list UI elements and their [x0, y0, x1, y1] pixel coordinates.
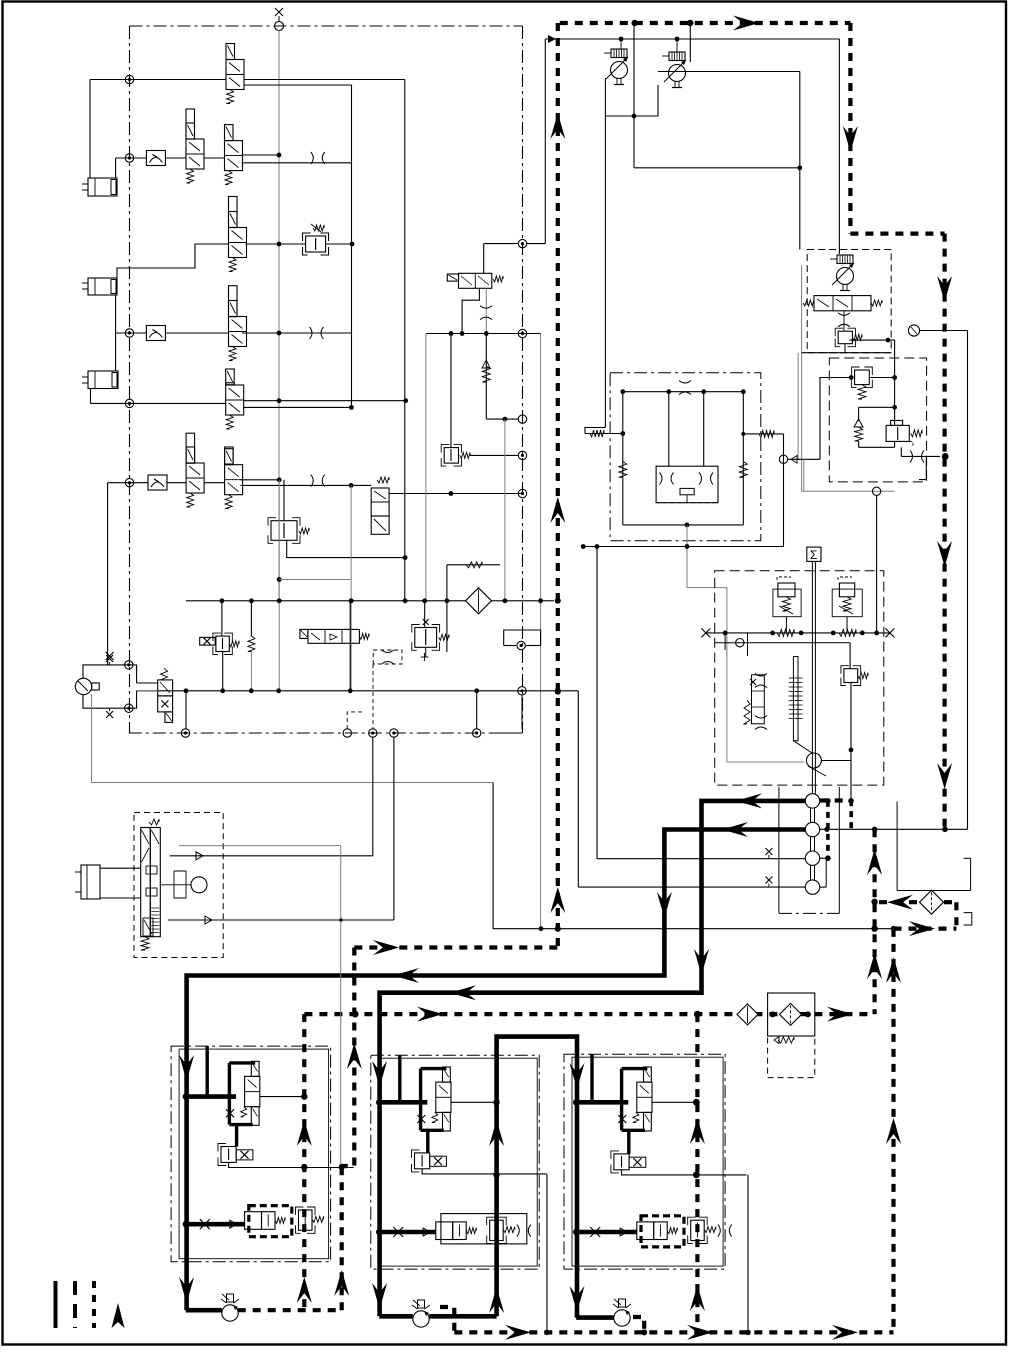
wire S4 line: [578, 886, 805, 888]
wire R3 out: [246, 243, 306, 245]
cylinder CYL3: [88, 371, 118, 389]
arrow P2 d: [179, 1055, 194, 1081]
cb valve2 TL: [299, 1210, 313, 1230]
arrow sym TM: [423, 1228, 430, 1236]
junction dd333: [518, 329, 526, 337]
wire x690: [689, 23, 691, 62]
port circle D: [390, 729, 398, 737]
wire x340: [340, 846, 342, 1168]
restrictor VB: [910, 450, 913, 462]
junction 1014 x697: [694, 1011, 701, 1018]
cylinder CYL2: [88, 278, 117, 295]
pilot drain TR: [622, 1170, 747, 1175]
wire x839: [838, 39, 840, 254]
wire RV2 top: [283, 480, 285, 521]
junction arrow y39: [548, 35, 556, 43]
arrow left diam: [887, 895, 913, 910]
wire gray x540 end: [539, 927, 543, 931]
junction R6: [125, 479, 133, 487]
pilot dash bottom bus: [454, 1330, 893, 1334]
spring left motor: [585, 433, 623, 435]
wire cyl3 bottom: [90, 389, 92, 404]
dash box right: [829, 358, 926, 482]
wire R4 b: [165, 332, 228, 334]
wire p2 down: [657, 85, 659, 116]
wire bus601: [186, 600, 554, 602]
wire gauge: [920, 330, 968, 332]
spring check S1: [482, 366, 490, 382]
box above dd: [504, 630, 541, 646]
thick row2 TM: [379, 1230, 436, 1235]
motor body dash: [656, 502, 718, 504]
wire R2 out2: [242, 162, 352, 164]
wire R6 left: [108, 482, 148, 484]
arrow bus b: [687, 1325, 713, 1340]
wire gray box right: [540, 334, 542, 929]
joystick springs: [149, 819, 159, 825]
pilot dash diamond line: [879, 900, 919, 904]
arrow 1014 b: [827, 1007, 853, 1022]
valve A4: [229, 301, 238, 317]
legend dash1: [73, 1281, 77, 1328]
arrow 1014 a: [417, 1007, 443, 1022]
pump3 outer box: [801, 265, 803, 491]
pump P4 circle: [806, 753, 821, 768]
motor right v: [742, 392, 744, 525]
pilot dash x875: [872, 829, 876, 1014]
junction td928: [555, 926, 561, 932]
wire RV6 v: [221, 601, 223, 636]
pilot dash x354: [342, 948, 355, 1168]
check CV1: [146, 151, 165, 166]
valve C: [371, 488, 389, 516]
pilot dash right v: [848, 23, 852, 234]
arrow TR a: [570, 1063, 585, 1089]
feed stub TL: [205, 1046, 208, 1097]
arrow 304 b: [297, 1277, 312, 1303]
wire gray box left: [425, 334, 427, 602]
relief RV1: [306, 236, 326, 252]
wire TR drain: [747, 1175, 749, 1333]
check CV3: [148, 475, 167, 490]
wire bus333: [426, 333, 541, 335]
filter bypass spring: [778, 1037, 794, 1043]
motor restrictor top: [679, 381, 691, 384]
arrow right 928: [909, 921, 935, 936]
wire pump3 out: [844, 344, 846, 353]
filter F3: [920, 890, 944, 914]
dot TR r1: [693, 1099, 700, 1106]
motor dashdot box: [610, 373, 761, 541]
wire x351 vertical: [351, 85, 353, 407]
wire R5: [91, 402, 226, 404]
wire p2 top: [676, 39, 678, 52]
wire R6 out2: [240, 484, 371, 486]
inner box TL: [179, 1049, 329, 1259]
arrow up 875b: [867, 953, 882, 979]
pilot dash jog: [954, 902, 958, 928]
dash vert x373: [372, 664, 374, 729]
filter F2: [780, 1003, 802, 1025]
pilot dash x354 dots: [354, 1096, 356, 1098]
wire x897: [896, 802, 898, 891]
motor top line: [623, 391, 744, 393]
port circle E: [473, 729, 481, 737]
pilot feed TR: [627, 1130, 630, 1154]
wire p4 right: [821, 760, 851, 762]
wire cyl4 b: [100, 897, 141, 899]
arrow up 558b: [550, 497, 565, 523]
inner box TM: [379, 1058, 537, 1266]
pump3 restrictor: [838, 313, 850, 316]
gauge G1: [908, 325, 919, 336]
arrow P2 c: [393, 968, 419, 983]
valve D: [300, 629, 308, 638]
relief RV5: [444, 448, 458, 464]
pilot feed TM: [426, 1130, 429, 1153]
wire R2 b: [165, 157, 186, 159]
wire x372: [372, 737, 374, 856]
valve A3: [229, 212, 238, 228]
dash branch: [347, 712, 362, 729]
relief RV7: [415, 628, 437, 648]
arrow up 893b: [886, 1118, 901, 1144]
arrow P2 e: [179, 1277, 194, 1303]
control valve cluster: [793, 657, 798, 741]
arrow sym TL: [230, 1220, 237, 1228]
wire E top: [483, 244, 485, 274]
junction thickdash bus601: [555, 598, 561, 604]
cb restrictor TM: [517, 1225, 520, 1237]
junction td692: [555, 689, 561, 695]
cb valve1 TL: [245, 1212, 262, 1230]
wire valveF left: [137, 682, 158, 684]
arrow up 558c: [550, 887, 565, 913]
pump P3: [837, 268, 854, 285]
wire R4 out: [242, 332, 352, 334]
pilot dash s12: [849, 800, 853, 829]
pump3 valve: [814, 296, 871, 311]
bracket right 1: [964, 857, 971, 859]
arrow top right: [733, 16, 759, 31]
wire x850: [849, 643, 851, 669]
wire R2 out: [242, 154, 279, 156]
wire x493: [492, 783, 494, 929]
wire R5 out: [243, 400, 406, 402]
valve A2: [225, 125, 234, 141]
relief RV2: [271, 521, 297, 541]
cb restrictor TR: [718, 1225, 721, 1237]
wire x545 up: [544, 39, 546, 244]
boundary dash-dot left vertical: [129, 26, 131, 733]
wire cyl4 a: [100, 867, 141, 869]
valve B6: [186, 447, 195, 463]
filter F0: [466, 588, 492, 614]
arrow riser b: [489, 1287, 504, 1313]
pilot line TR: [652, 1101, 697, 1103]
circle S4: [805, 880, 819, 894]
wire x578 drop: [577, 691, 579, 887]
wire RV7 v: [424, 601, 426, 628]
wire x393: [393, 737, 395, 920]
filter dash tank: [768, 1036, 815, 1078]
node x bottom: [106, 711, 113, 718]
wire s4 up: [825, 858, 827, 887]
inner box TR: [572, 1057, 723, 1266]
junction y491 circle: [872, 487, 880, 495]
wire motor drain gray: [687, 525, 804, 762]
dot TM r1: [493, 1099, 499, 1105]
wire ctrl conn: [747, 633, 749, 656]
valve F: [158, 680, 173, 696]
dashdot box TR: [564, 1054, 725, 1269]
wire x876 down: [876, 496, 878, 633]
circle stack box bottom: [779, 912, 839, 914]
x mark left: [701, 628, 710, 637]
relief RL: [778, 583, 795, 597]
motor bottom line: [623, 524, 744, 526]
arrow up 893a: [886, 957, 901, 983]
spring right motor: [743, 433, 783, 435]
wire joy out2: [168, 919, 394, 921]
arrow bus c: [832, 1325, 858, 1340]
pilot dash x304: [302, 1014, 306, 1310]
legend arrow: [112, 1303, 125, 1328]
wire x350 low: [349, 601, 351, 691]
arrow up 354: [347, 1043, 362, 1069]
wire gray pump drain: [92, 694, 494, 783]
port circle A: [181, 729, 189, 737]
junction td691: [555, 688, 561, 694]
wire RL legs: [785, 617, 787, 633]
junction box bottom: [125, 704, 133, 712]
spring busL: [777, 629, 794, 636]
cb dash box TL: [249, 1206, 292, 1237]
junction 944 y456: [942, 453, 949, 460]
wire x476 link: [476, 691, 478, 729]
junction R1: [125, 75, 133, 83]
arrow down 944c: [937, 763, 952, 789]
cluster diag: [793, 741, 812, 753]
feed stub TM: [398, 1055, 401, 1102]
cb valve1 TR: [637, 1222, 654, 1240]
port circle C: [369, 729, 377, 737]
pilot dash y1014: [304, 1012, 874, 1016]
wire y39: [545, 38, 839, 40]
pilot dash x341: [340, 1167, 344, 1310]
wire cyl3 top: [115, 333, 117, 371]
thick row2 TL: [186, 1222, 245, 1227]
wire y71: [658, 71, 800, 73]
arrow bus a: [505, 1325, 531, 1340]
wire RV2 bottom: [287, 540, 405, 557]
restrictor R2: [311, 152, 314, 164]
circle stack box sides: [778, 787, 780, 914]
coupling 0: [810, 753, 812, 794]
pilot dash 233: [850, 232, 944, 236]
valve V1 TM: [436, 1082, 451, 1112]
check CV2: [146, 326, 165, 341]
junction R5: [125, 399, 133, 407]
wire y455: [470, 454, 518, 456]
pump P0: [75, 678, 91, 694]
wire gray x798: [797, 353, 799, 460]
valve V1 TL: [245, 1076, 260, 1106]
arrow P2 b: [657, 892, 672, 918]
dashed restrictor: [382, 650, 394, 653]
spring S2: [250, 601, 252, 636]
pilot dash TL bottom: [238, 1308, 342, 1312]
cylinder CYL4: [81, 865, 100, 899]
valve E: [447, 274, 458, 281]
junction 875 902: [871, 899, 877, 905]
bracket right 2: [964, 913, 972, 925]
filter F1: [737, 1004, 758, 1025]
wire R2 c: [204, 157, 225, 159]
wire y116: [605, 115, 658, 117]
wire S3 line: [597, 858, 805, 860]
wire x446: [446, 565, 448, 601]
legend dash2: [92, 1281, 96, 1328]
relief RA: [855, 370, 870, 385]
track pump TR: [614, 1310, 630, 1326]
wire S3 stub: [820, 857, 828, 859]
wire joy out1: [170, 855, 373, 857]
wire TM pump: [379, 1314, 413, 1319]
wire y167: [634, 167, 800, 169]
wire p1 down: [604, 78, 606, 116]
wire RA right: [869, 377, 894, 379]
wire S2 stub: [820, 828, 968, 830]
track pump TM: [413, 1311, 429, 1327]
valve A1: [226, 44, 235, 60]
main line P2 feed: [187, 830, 806, 1311]
arrow up 558a: [550, 113, 565, 139]
pump block dash box: [807, 250, 891, 353]
thick row2 TR: [576, 1230, 637, 1235]
junction box top: [125, 661, 133, 669]
valve A5: [226, 369, 235, 385]
pilot drain TM: [422, 1169, 547, 1174]
arrow sym TR: [620, 1228, 627, 1236]
pilot feed TL: [235, 1125, 238, 1147]
arrow riser a: [489, 1120, 504, 1146]
pilot dash 558 v: [556, 23, 560, 948]
coupling 2: [810, 837, 812, 851]
pilot valve TR: [614, 1154, 629, 1170]
wire TM drain: [546, 1175, 548, 1333]
wire S4 stub: [820, 886, 827, 888]
arrow 697 a: [690, 1118, 705, 1144]
circle S1: [805, 794, 819, 808]
boundary dash-dot right vertical: [522, 26, 524, 733]
wire x351: [350, 485, 352, 690]
pilot dash y801 right: [820, 798, 852, 802]
circle S2: [805, 822, 819, 836]
wire gray x803: [803, 459, 805, 491]
pump P0 box: [83, 665, 137, 683]
restrictor R6: [311, 475, 314, 487]
node X top vent: [275, 8, 283, 16]
wire x597: [596, 547, 598, 859]
arrow P1 b: [694, 949, 709, 975]
wire x968: [967, 331, 969, 830]
wire RA left: [820, 378, 851, 460]
thick row1 TL: [186, 1094, 236, 1099]
wire VB bottom: [894, 441, 896, 447]
dot 304 junctions: [301, 1093, 307, 1099]
wire valveC out: [389, 493, 522, 495]
arrow down 850: [843, 126, 858, 152]
wire R3 out2: [326, 243, 352, 245]
filter F2 box: [768, 993, 815, 1036]
wire R1 out2: [244, 84, 352, 86]
wire E down: [462, 288, 479, 333]
wire bus632: [706, 632, 890, 634]
wire y928: [493, 928, 893, 930]
pilot dash TM stub: [440, 1307, 454, 1332]
node x top: [106, 655, 113, 662]
pilot dash top: [560, 21, 851, 25]
relief RR: [839, 583, 854, 597]
wire x851: [850, 683, 852, 802]
junction R4: [125, 329, 133, 337]
joystick detail rects: [146, 866, 157, 874]
relief RC: [844, 669, 858, 683]
junction R2: [125, 154, 133, 162]
coupling 3: [810, 865, 812, 880]
arrow P2 a: [722, 822, 748, 837]
arrow 697 b: [690, 1285, 705, 1311]
relief RV6: [216, 636, 229, 651]
pilot dash s13: [826, 801, 830, 858]
pilot dash x697: [695, 1014, 699, 1332]
wire x783: [783, 434, 785, 547]
cb dash box TR: [641, 1216, 684, 1247]
spring busR: [839, 629, 856, 636]
motor body: [656, 466, 718, 503]
check CC loop: [858, 407, 860, 421]
wire joy gray: [179, 845, 341, 847]
pilot line TL: [260, 1096, 304, 1098]
track pump TL: [222, 1305, 238, 1321]
cb valve2 TR: [691, 1220, 705, 1240]
thick row1 TR: [576, 1100, 628, 1105]
thick row1 TM: [379, 1100, 427, 1105]
junction dd455: [518, 451, 526, 459]
check right motor: [739, 462, 747, 478]
sigma shaft: [811, 561, 813, 753]
wire RA drop circ: [779, 455, 787, 463]
junction dd419: [518, 415, 526, 423]
junction dd243: [518, 239, 526, 247]
wire y890: [897, 890, 971, 892]
wire S1 stub: [820, 800, 828, 802]
cb valve2 TM: [490, 1220, 504, 1240]
arrow P1 a: [736, 793, 762, 808]
pilot valve TL: [221, 1147, 236, 1163]
wire p1 top: [620, 39, 622, 49]
dot 341 junction: [339, 1164, 345, 1170]
arrow up 875a: [867, 849, 882, 875]
valve A6: [225, 449, 234, 465]
pump P2: [669, 65, 686, 82]
wire R2 a: [116, 157, 147, 159]
wire x894: [894, 340, 896, 425]
junction 1014 x355: [352, 1011, 359, 1018]
legend solid: [54, 1281, 58, 1328]
boundary dash-dot bottom: [129, 732, 523, 734]
